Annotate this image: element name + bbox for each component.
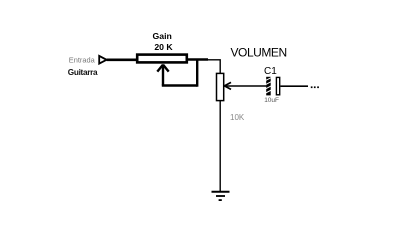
svg-text:10K: 10K bbox=[230, 113, 245, 122]
svg-text:20 K: 20 K bbox=[154, 42, 173, 52]
svg-text:C1: C1 bbox=[264, 66, 277, 77]
svg-text:10uF: 10uF bbox=[264, 97, 279, 104]
svg-text:Guitarra: Guitarra bbox=[68, 68, 98, 77]
svg-text:Gain: Gain bbox=[153, 31, 172, 41]
svg-text:VOLUMEN: VOLUMEN bbox=[231, 46, 287, 60]
svg-text:Entrada: Entrada bbox=[69, 56, 96, 65]
